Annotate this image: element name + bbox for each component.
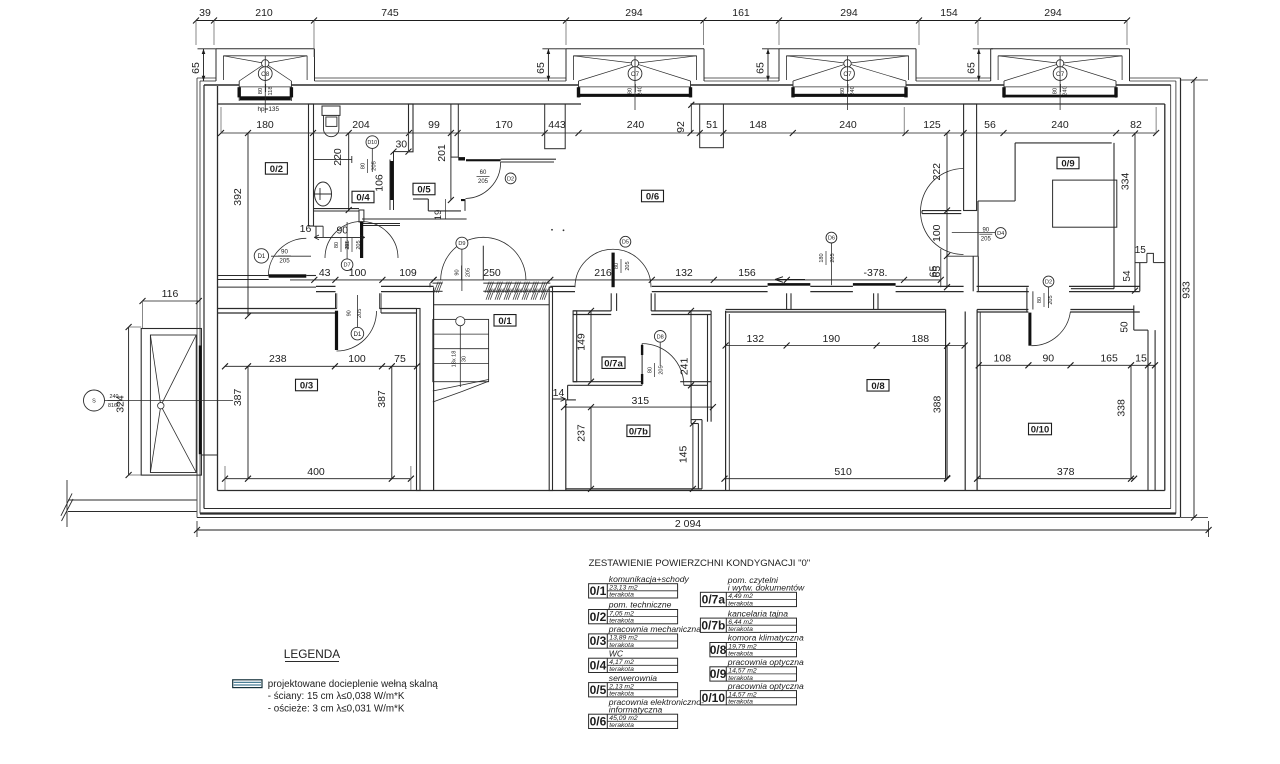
lobby walls near 0/6 xyxy=(362,104,565,226)
svg-text:0/8: 0/8 xyxy=(710,643,727,657)
svg-text:0/6: 0/6 xyxy=(590,715,607,729)
svg-text:56: 56 xyxy=(984,119,996,131)
svg-text:13,89 m2: 13,89 m2 xyxy=(609,635,638,642)
interior dimension row under top wall xyxy=(218,102,1159,136)
svg-text:240: 240 xyxy=(638,86,644,96)
dim 14 near 0/7b xyxy=(552,387,566,401)
svg-text:238: 238 xyxy=(269,353,287,365)
svg-text:39: 39 xyxy=(199,7,211,19)
svg-text:190: 190 xyxy=(823,333,841,345)
svg-text:D7: D7 xyxy=(344,263,351,269)
staircase xyxy=(433,317,489,402)
svg-text:kancelaria tajna: kancelaria tajna xyxy=(728,608,788,618)
window bay O7 xyxy=(779,49,916,110)
svg-text:387: 387 xyxy=(376,390,388,408)
svg-text:komunikacja+schody: komunikacja+schody xyxy=(609,574,690,584)
svg-text:ZESTAWIENIE POWIERZCHNI KOND: ZESTAWIENIE POWIERZCHNI KONDYGNACJI "0" xyxy=(589,558,811,569)
room label boxes xyxy=(265,163,287,175)
table row 0/9 xyxy=(710,657,804,682)
svg-text:170: 170 xyxy=(495,119,513,131)
svg-text:443: 443 xyxy=(548,119,566,131)
svg-text:14,57 m2: 14,57 m2 xyxy=(728,668,757,675)
svg-text:WC: WC xyxy=(609,648,624,658)
svg-text:106: 106 xyxy=(374,174,386,192)
dims 334 15 54 xyxy=(1134,134,1136,291)
svg-text:65: 65 xyxy=(965,62,977,74)
svg-text:18x 18: 18x 18 xyxy=(452,351,458,368)
svg-text:156: 156 xyxy=(738,267,756,279)
table row 0/7b xyxy=(700,608,796,633)
svg-text:80: 80 xyxy=(614,263,620,269)
dim 201 at 0/5 xyxy=(450,133,452,200)
svg-text:65: 65 xyxy=(755,62,767,74)
svg-text:0/3: 0/3 xyxy=(300,381,313,392)
svg-text:80: 80 xyxy=(334,242,340,248)
svg-text:4,49 m2: 4,49 m2 xyxy=(728,593,753,600)
svg-text:2,13 m2: 2,13 m2 xyxy=(608,683,634,690)
svg-text:205: 205 xyxy=(478,179,489,185)
svg-text:2 094: 2 094 xyxy=(675,518,701,530)
svg-text:90: 90 xyxy=(336,225,348,237)
svg-text:pracownia mechaniczna: pracownia mechaniczna xyxy=(608,624,701,634)
dims of 0/7a 0/7b xyxy=(590,311,592,382)
svg-text:0/9: 0/9 xyxy=(710,667,727,681)
svg-text:19: 19 xyxy=(433,210,444,221)
wall right of 0/6 with double-swing door D4 xyxy=(921,104,1007,291)
svg-text:100: 100 xyxy=(931,224,943,242)
svg-text:0/4: 0/4 xyxy=(356,193,370,204)
table row 0/7a xyxy=(700,575,805,607)
svg-text:- ściany: 15 cm λ≤0,038 W/m*K: - ściany: 15 cm λ≤0,038 W/m*K xyxy=(268,691,405,702)
svg-text:0/9: 0/9 xyxy=(1061,159,1074,170)
corridor wall right part with door D2 of 0/10 xyxy=(1027,263,1165,346)
svg-text:90: 90 xyxy=(1042,353,1054,365)
30 dim at 0/4 xyxy=(391,133,412,155)
bay 65 dimension lines xyxy=(190,49,216,81)
svg-text:0/5: 0/5 xyxy=(590,683,607,697)
svg-text:45,09 m2: 45,09 m2 xyxy=(609,715,638,722)
specks in 0/6 xyxy=(551,229,553,231)
svg-text:387: 387 xyxy=(232,388,244,406)
svg-text:201: 201 xyxy=(436,144,448,162)
door D7 double swing xyxy=(300,221,398,270)
right 933 dimension xyxy=(1181,77,1209,521)
svg-text:90: 90 xyxy=(281,249,288,256)
terrace break lines bottom left xyxy=(61,480,197,527)
svg-text:148: 148 xyxy=(749,119,767,131)
svg-text:180: 180 xyxy=(819,253,825,262)
building exterior walls with insulation lines xyxy=(197,78,1181,518)
bottom 2 094 dimension xyxy=(194,518,1212,537)
table row 0/1 xyxy=(589,574,690,599)
room 0/9 walls xyxy=(978,143,1117,289)
svg-text:D5: D5 xyxy=(622,240,629,246)
svg-text:0/7a: 0/7a xyxy=(604,358,623,369)
door D6 label and thresholds xyxy=(768,232,896,286)
svg-text:D2: D2 xyxy=(1045,280,1052,286)
rooms 0/7a 0/7b walls xyxy=(566,293,711,490)
svg-text:komora klimatyczna: komora klimatyczna xyxy=(728,633,804,643)
door D1 of room 0/3 xyxy=(335,295,377,351)
table row 0/6 xyxy=(589,697,704,729)
svg-text:S: S xyxy=(92,399,96,405)
washbasin in 0/4 xyxy=(314,182,332,206)
svg-text:240: 240 xyxy=(1063,86,1069,96)
svg-text:334: 334 xyxy=(1120,172,1132,190)
svg-text:745: 745 xyxy=(381,7,399,19)
svg-text:80: 80 xyxy=(345,242,351,248)
window bay O7 xyxy=(991,49,1130,110)
svg-text:149: 149 xyxy=(576,333,588,351)
svg-text:82: 82 xyxy=(1130,119,1142,131)
svg-text:-378.: -378. xyxy=(864,267,888,279)
svg-text:294: 294 xyxy=(625,7,643,19)
svg-text:D2: D2 xyxy=(507,176,514,182)
svg-text:60: 60 xyxy=(480,170,487,176)
table row 0/2 xyxy=(589,600,678,625)
rooms 0/8 0/10 walls xyxy=(726,293,1156,490)
svg-text:116: 116 xyxy=(162,288,179,300)
svg-text:terakota: terakota xyxy=(609,722,634,729)
svg-text:100: 100 xyxy=(348,353,366,365)
svg-text:pracownia elektroniczno-: pracownia elektroniczno- xyxy=(608,697,704,707)
svg-text:205: 205 xyxy=(357,309,363,318)
svg-text:80: 80 xyxy=(1053,88,1059,94)
svg-text:205: 205 xyxy=(981,237,992,243)
svg-text:43: 43 xyxy=(319,267,331,279)
svg-text:0/7a: 0/7a xyxy=(702,593,726,607)
door D9 double swing xyxy=(441,237,526,291)
svg-text:205: 205 xyxy=(625,261,631,270)
door D1 of room 0/2 xyxy=(254,238,311,277)
WC room 0/4 walls and pocket door D10 xyxy=(313,104,413,222)
svg-text:0/7b: 0/7b xyxy=(629,426,648,437)
svg-text:250: 250 xyxy=(483,267,501,279)
svg-text:118: 118 xyxy=(268,86,274,95)
room 0/1 stair walls xyxy=(430,283,553,490)
svg-text:75: 75 xyxy=(394,353,406,365)
elevator shaft outside left wall xyxy=(141,329,217,476)
svg-text:19,79 m2: 19,79 m2 xyxy=(728,643,757,650)
dims of room 0/3 xyxy=(222,353,420,369)
svg-text:65: 65 xyxy=(535,62,547,74)
window bay O8 xyxy=(216,49,315,113)
svg-text:315: 315 xyxy=(632,395,650,407)
svg-text:14,57 m2: 14,57 m2 xyxy=(728,691,757,698)
svg-text:165: 165 xyxy=(1100,353,1118,365)
svg-text:23,13 m2: 23,13 m2 xyxy=(608,585,638,592)
svg-text:80: 80 xyxy=(628,88,634,94)
table row 0/3 xyxy=(589,624,702,649)
svg-text:0/8: 0/8 xyxy=(871,381,884,392)
svg-text:324: 324 xyxy=(115,395,127,413)
corridor wall under 0/2 0/3 zone: dims 43 100 109 row xyxy=(290,267,437,283)
svg-text:80: 80 xyxy=(258,88,264,94)
room 0/6 ducts at window wall xyxy=(700,104,724,148)
table row 0/5 xyxy=(589,673,678,698)
door D10 label xyxy=(360,136,378,173)
svg-text:205: 205 xyxy=(466,268,472,277)
svg-text:204: 204 xyxy=(352,119,370,131)
svg-text:205: 205 xyxy=(659,365,665,374)
svg-text:80: 80 xyxy=(360,163,366,169)
svg-text:pracownia optyczna: pracownia optyczna xyxy=(727,681,804,691)
svg-text:154: 154 xyxy=(940,7,958,19)
svg-text:54: 54 xyxy=(1122,270,1133,282)
svg-text:6,44 m2: 6,44 m2 xyxy=(728,619,753,626)
svg-text:240: 240 xyxy=(627,119,645,131)
svg-text:0/1: 0/1 xyxy=(498,316,512,327)
svg-text:0/10: 0/10 xyxy=(1031,425,1050,436)
svg-text:216: 216 xyxy=(594,267,612,279)
room 0/3 walls xyxy=(218,293,421,490)
dim 220 in 0/4 xyxy=(348,133,350,210)
svg-text:D10: D10 xyxy=(368,140,378,146)
svg-text:0/2: 0/2 xyxy=(270,164,283,175)
svg-text:205: 205 xyxy=(356,240,362,249)
svg-text:0/10: 0/10 xyxy=(702,691,726,705)
svg-text:210: 210 xyxy=(255,7,273,19)
svg-text:50: 50 xyxy=(1120,321,1131,333)
svg-text:92: 92 xyxy=(675,121,687,133)
svg-text:205: 205 xyxy=(279,258,290,265)
svg-text:D8: D8 xyxy=(657,334,664,340)
svg-text:65: 65 xyxy=(190,62,202,74)
dim 392 of room 0/2 xyxy=(247,133,249,316)
svg-text:0/4: 0/4 xyxy=(590,659,607,673)
svg-text:- ościeże: 3 cm λ≤0,031 W/m*K: - ościeże: 3 cm λ≤0,031 W/m*K xyxy=(268,704,405,715)
svg-text:terakota: terakota xyxy=(728,600,753,607)
main corridor wall segments xyxy=(316,286,1140,291)
svg-text:65: 65 xyxy=(931,266,943,278)
svg-text:80: 80 xyxy=(1037,297,1043,303)
svg-text:241: 241 xyxy=(679,357,691,375)
svg-text:132: 132 xyxy=(747,333,765,345)
svg-text:108: 108 xyxy=(994,353,1012,365)
svg-text:hp=135: hp=135 xyxy=(258,106,280,113)
svg-text:D9: D9 xyxy=(458,241,465,247)
svg-text:80: 80 xyxy=(840,88,846,94)
legend xyxy=(233,647,439,715)
svg-text:0/1: 0/1 xyxy=(590,584,607,598)
svg-text:222: 222 xyxy=(931,163,943,181)
top dimension row xyxy=(193,7,1130,57)
svg-text:378: 378 xyxy=(1057,466,1075,478)
svg-text:D1: D1 xyxy=(257,253,265,260)
svg-text:4,17 m2: 4,17 m2 xyxy=(609,659,634,666)
svg-text:0/5: 0/5 xyxy=(417,185,431,196)
svg-text:392: 392 xyxy=(232,188,244,206)
svg-text:terakota: terakota xyxy=(609,592,634,599)
door D8 xyxy=(641,331,684,386)
svg-text:161: 161 xyxy=(732,7,750,19)
svg-text:15: 15 xyxy=(1135,353,1147,365)
svg-text:180: 180 xyxy=(256,119,274,131)
table row 0/4 xyxy=(589,648,678,673)
svg-text:132: 132 xyxy=(675,267,693,279)
svg-text:51: 51 xyxy=(706,119,718,131)
svg-text:933: 933 xyxy=(1181,281,1193,299)
svg-text:90: 90 xyxy=(347,310,353,316)
dims 116 324 of elevator xyxy=(115,288,202,478)
svg-text:237: 237 xyxy=(576,424,588,442)
svg-text:388: 388 xyxy=(932,395,944,413)
svg-text:294: 294 xyxy=(840,7,858,19)
svg-text:terakota: terakota xyxy=(728,699,753,706)
svg-text:pom. czytelni: pom. czytelni xyxy=(727,575,779,585)
window bay O7 xyxy=(566,49,704,110)
svg-text:30: 30 xyxy=(395,139,407,151)
table row 0/8 xyxy=(710,633,804,658)
svg-text:240: 240 xyxy=(1051,119,1069,131)
svg-text:D6: D6 xyxy=(828,236,835,242)
svg-text:188: 188 xyxy=(912,333,930,345)
svg-text:15: 15 xyxy=(1135,245,1147,256)
svg-text:16: 16 xyxy=(300,223,312,235)
svg-text:0/2: 0/2 xyxy=(590,610,607,624)
svg-text:109: 109 xyxy=(399,267,417,279)
svg-text:0/3: 0/3 xyxy=(590,634,607,648)
svg-text:90: 90 xyxy=(454,269,460,275)
svg-text:205: 205 xyxy=(372,161,378,171)
svg-text:LEGENDA: LEGENDA xyxy=(284,647,341,661)
svg-text:pom. techniczne: pom. techniczne xyxy=(608,600,672,610)
door D2 of room 0/5 xyxy=(466,159,517,198)
vertical dim chain 222 100 65 xyxy=(946,133,948,287)
svg-text:205: 205 xyxy=(830,253,836,262)
hatched wall pieces (demolition) xyxy=(433,282,551,300)
svg-text:99: 99 xyxy=(428,119,440,131)
svg-text:D1: D1 xyxy=(353,331,361,338)
svg-text:294: 294 xyxy=(1044,7,1062,19)
svg-text:240: 240 xyxy=(850,86,856,96)
svg-text:240: 240 xyxy=(839,119,857,131)
svg-text:510: 510 xyxy=(834,466,852,478)
svg-text:0/7b: 0/7b xyxy=(701,618,725,632)
room 0/2 walls xyxy=(218,104,317,287)
table row 0/10 xyxy=(700,681,804,706)
svg-text:D4: D4 xyxy=(997,231,1004,237)
svg-text:90: 90 xyxy=(982,228,989,234)
corridor dim row 250 216 132 156 378 65 xyxy=(431,249,944,287)
svg-text:0/6: 0/6 xyxy=(646,192,659,203)
door D5 double swing xyxy=(575,236,651,287)
svg-text:205: 205 xyxy=(1048,295,1054,304)
toilet in 0/4 xyxy=(322,106,340,137)
svg-text:220: 220 xyxy=(332,148,344,166)
svg-text:125: 125 xyxy=(923,119,941,131)
svg-text:145: 145 xyxy=(677,445,689,463)
svg-text:30: 30 xyxy=(462,356,468,362)
svg-text:projektowane docieplenie wełną: projektowane docieplenie wełną skalną xyxy=(268,679,438,690)
svg-text:80: 80 xyxy=(647,367,653,373)
svg-text:400: 400 xyxy=(307,466,325,478)
svg-text:7,05 m2: 7,05 m2 xyxy=(609,610,634,617)
svg-text:serwerownia: serwerownia xyxy=(609,673,657,683)
dims of rooms 0/8 0/10 xyxy=(723,333,968,349)
svg-text:pracownia optyczna: pracownia optyczna xyxy=(727,657,804,667)
svg-text:338: 338 xyxy=(1116,399,1128,417)
room 0/5 walls xyxy=(413,104,465,211)
elevator axis and S circle xyxy=(84,390,234,411)
